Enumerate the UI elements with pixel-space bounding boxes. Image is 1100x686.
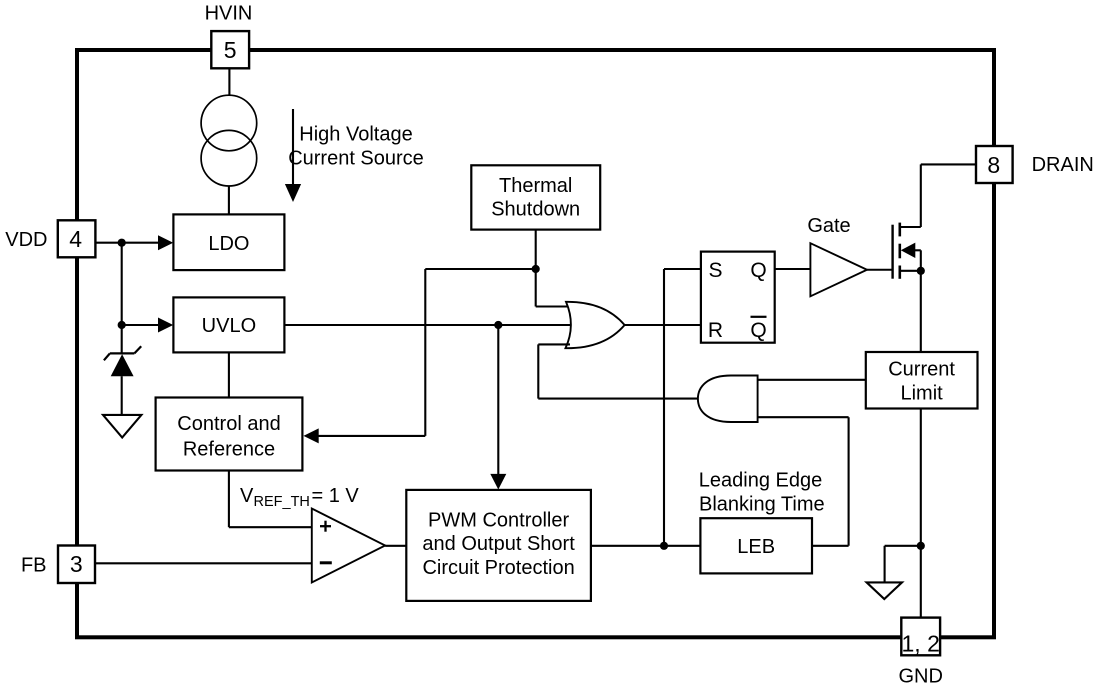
wire buffer output to MOSFET gate <box>867 269 893 271</box>
svg-text:Shutdown: Shutdown <box>491 199 580 221</box>
wire arrow into UVLO <box>122 318 174 333</box>
svg-text:R: R <box>708 319 723 342</box>
wire Thermal Shutdown to Control and Reference with arrow <box>304 269 536 443</box>
svg-text:Thermal: Thermal <box>499 175 572 197</box>
svg-text:Current: Current <box>888 359 955 381</box>
wire latch Q to gate driver <box>775 268 811 270</box>
svg-text:1, 2: 1, 2 <box>902 631 940 657</box>
or-gate U3 <box>566 302 625 348</box>
svg-text:VDD: VDD <box>5 229 47 251</box>
wire AND output to OR input <box>538 344 698 398</box>
wire to ground symbol <box>885 546 921 583</box>
svg-text:and Output Short: and Output Short <box>422 533 575 555</box>
svg-text:V: V <box>240 485 254 507</box>
junction VDD-LDO node <box>118 239 126 247</box>
block Control and Reference <box>156 398 303 471</box>
wire Current Limit to AND input <box>758 379 866 381</box>
wire MOSFET drain to pin 8 <box>921 164 976 227</box>
svg-text:Current Source: Current Source <box>288 148 424 170</box>
zener diode D1 <box>104 346 141 415</box>
svg-text:High Voltage: High Voltage <box>299 124 412 146</box>
current source CS1 (two overlapping circles) <box>201 95 257 186</box>
svg-text:Leading Edge: Leading Edge <box>699 470 822 492</box>
svg-text:8: 8 <box>987 152 1000 178</box>
svg-text:S: S <box>708 259 722 282</box>
block PWM Controller and Output Short Circuit Protection <box>406 490 591 601</box>
svg-text:Blanking Time: Blanking Time <box>699 493 825 515</box>
block UVLO <box>173 297 284 352</box>
wire UVLO to Control and Reference <box>228 352 230 397</box>
and-gate U6 (mirrored, inputs right) <box>698 376 758 423</box>
gate driver buffer U5 <box>810 243 867 296</box>
transistor Q1 power MOSFET <box>893 223 921 279</box>
wire LEB to AND input <box>758 417 849 546</box>
IC boundary U1 outline <box>77 50 994 637</box>
svg-text:= 1 V: = 1 V <box>312 485 360 507</box>
pin 8 DRAIN box <box>976 146 1013 183</box>
svg-text:REF_TH: REF_TH <box>254 494 310 510</box>
svg-text:Reference: Reference <box>183 438 275 460</box>
op-amp comparator U2 <box>312 509 385 583</box>
svg-text:Control and: Control and <box>177 413 280 435</box>
svg-text:3: 3 <box>70 551 83 577</box>
junction UVLO-PWM node <box>494 321 502 329</box>
svg-text:Circuit Protection: Circuit Protection <box>422 557 574 579</box>
junction Thermal Shutdown branch node <box>532 265 540 273</box>
svg-text:Limit: Limit <box>900 383 943 405</box>
block LDO <box>173 214 284 270</box>
svg-text:FB: FB <box>21 555 47 577</box>
svg-text:LDO: LDO <box>208 233 249 255</box>
wire HVIN pin to current source <box>228 68 230 96</box>
svg-text:4: 4 <box>69 226 82 252</box>
svg-text:DRAIN: DRAIN <box>1032 154 1094 176</box>
wire VDD node vertical (pin 4 to zener) <box>83 237 121 353</box>
block LEB <box>700 518 812 573</box>
svg-text:Q: Q <box>750 319 766 342</box>
svg-text:5: 5 <box>224 37 237 63</box>
wire Current Limit down to GND pin <box>920 409 922 618</box>
junction MOSFET source node <box>917 267 925 275</box>
pin 1,2 GND box <box>901 618 940 657</box>
pin 5 HVIN box <box>211 31 249 68</box>
ground symbol at source <box>867 582 902 599</box>
wire MOSFET source to Current Limit <box>920 271 922 352</box>
svg-text:Gate: Gate <box>807 215 850 237</box>
wire comparator output to PWM block <box>385 545 406 547</box>
wire Thermal Shutdown to OR gate <box>536 230 570 307</box>
pin 3 FB box <box>58 546 95 584</box>
wire PWM output to LEB <box>591 545 701 547</box>
label High Voltage Current Source <box>288 124 424 170</box>
annotation arrow High Voltage Current Source <box>285 109 301 202</box>
wire arrow into LDO <box>122 235 174 250</box>
wire current source to LDO <box>228 186 230 214</box>
svg-text:Q: Q <box>750 259 766 282</box>
junction source-GND node <box>917 542 925 550</box>
junction PWM-S feedback node <box>660 542 668 550</box>
svg-text:LEB: LEB <box>737 536 775 558</box>
block Thermal Shutdown <box>471 165 600 229</box>
junction VDD-UVLO node <box>118 321 126 329</box>
wire FB to comparator minus input <box>95 562 311 564</box>
wire UVLO output to OR gate <box>284 324 572 326</box>
svg-text:HVIN: HVIN <box>205 3 253 25</box>
latch U4 SR box <box>701 252 775 343</box>
svg-text:GND: GND <box>898 666 942 686</box>
block Current Limit <box>866 352 978 409</box>
svg-text:PWM Controller: PWM Controller <box>428 509 569 531</box>
pin 4 VDD box <box>58 220 96 257</box>
wire OR output to latch R input <box>625 324 701 326</box>
wire arrow down into PWM block <box>490 325 506 490</box>
label Leading Edge Blanking Time <box>699 470 825 516</box>
svg-text:UVLO: UVLO <box>202 315 256 337</box>
wire feedback to latch S input <box>664 269 701 546</box>
ground symbol at zener <box>103 415 141 438</box>
wire Control and Reference to comparator plus input <box>229 471 312 528</box>
value label VREF_TH = 1 V <box>240 485 359 510</box>
